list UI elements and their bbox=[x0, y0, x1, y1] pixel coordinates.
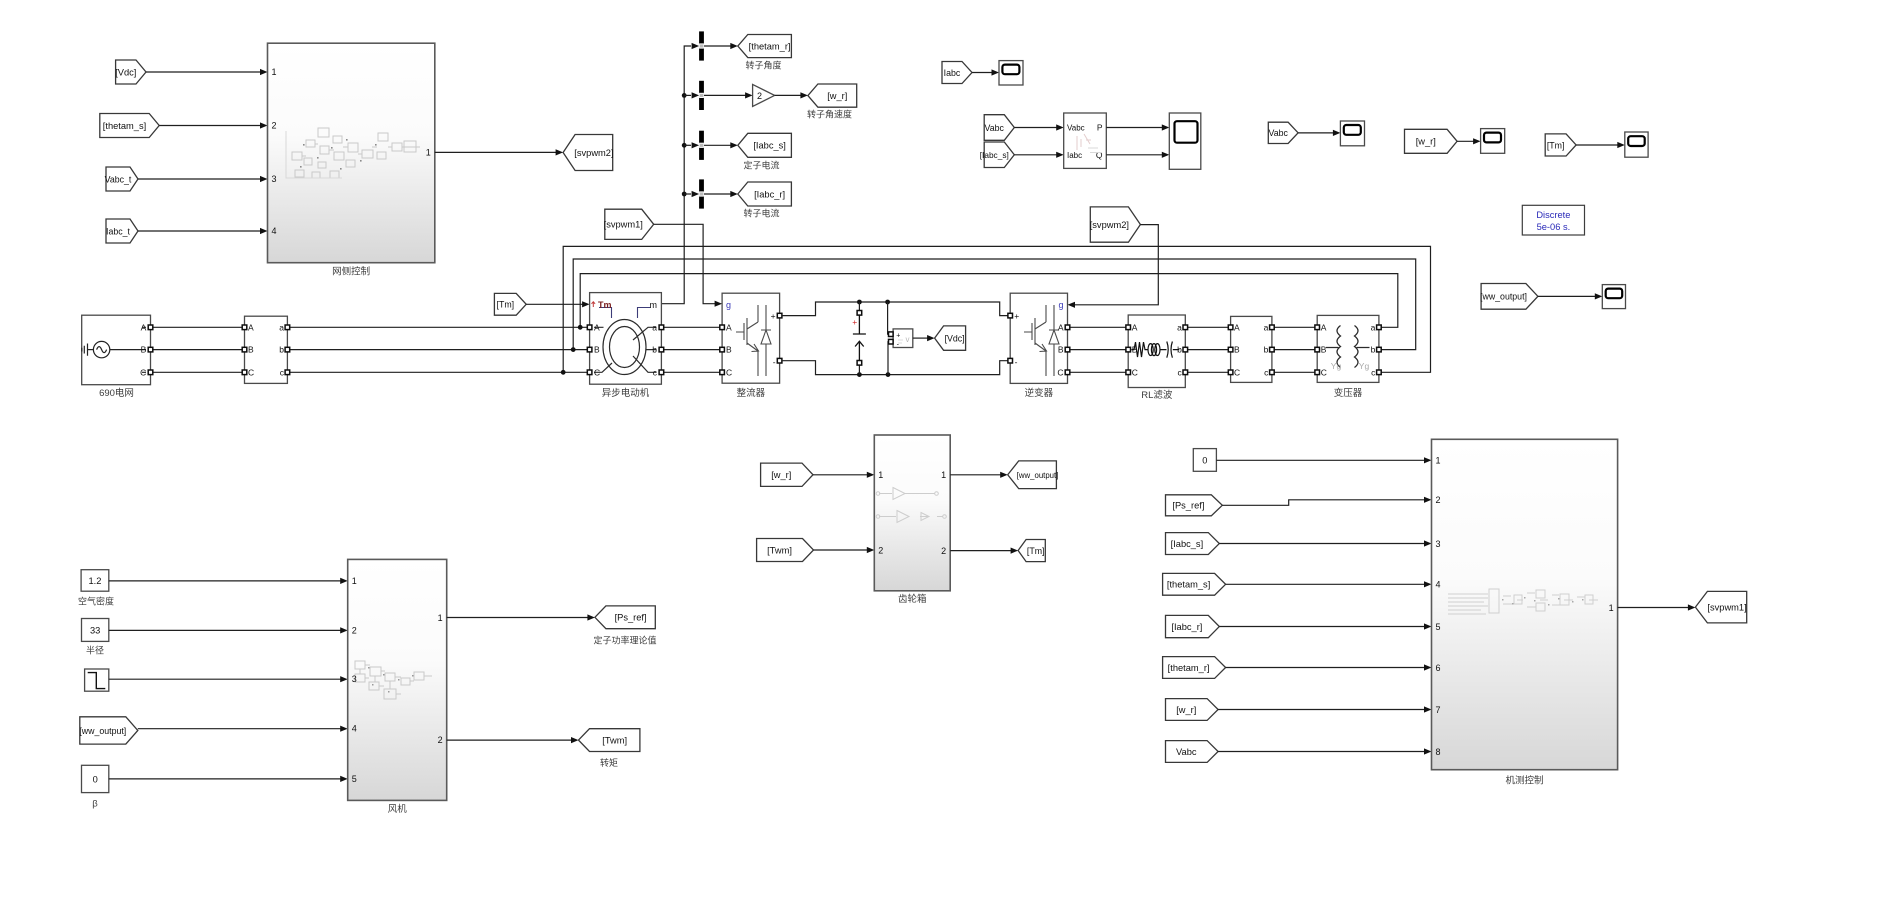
scope for ww_output bbox=[1602, 285, 1625, 309]
block 690电网 (690V grid source) bbox=[82, 315, 151, 385]
wire gearbox 2 to [Tm] bbox=[950, 550, 1011, 552]
svg-text:3: 3 bbox=[272, 174, 277, 184]
port square rectifier plus bbox=[777, 313, 782, 318]
svg-text:2: 2 bbox=[352, 625, 357, 635]
port square machine c bbox=[659, 370, 664, 375]
svg-text:定子电流: 定子电流 bbox=[743, 160, 779, 171]
from tag [Iabc_s] (control) bbox=[1166, 533, 1220, 555]
port square machine b bbox=[659, 347, 664, 352]
wire [w_r] to scope bbox=[1457, 140, 1474, 142]
wire P to scope bbox=[1106, 127, 1162, 129]
svg-text:[ww_output]: [ww_output] bbox=[79, 726, 126, 736]
goto tag [ww_output] (gearbox) bbox=[1008, 461, 1059, 489]
wire [w_r] to control 7 bbox=[1218, 709, 1425, 711]
svg-text:5: 5 bbox=[352, 774, 357, 784]
wire [w_r] to gearbox 1 bbox=[813, 474, 868, 476]
port square inverter plus bbox=[1008, 313, 1013, 318]
svg-text:风机: 风机 bbox=[388, 803, 408, 815]
wire cap top stub bbox=[858, 302, 860, 311]
wire machine c to rectifier C bbox=[664, 371, 720, 373]
svg-text:a: a bbox=[652, 322, 657, 332]
svg-text:β: β bbox=[92, 799, 98, 810]
wire branch to RT3 bbox=[684, 144, 691, 146]
svg-text:A: A bbox=[248, 322, 254, 332]
wire 33 to turbine 2 bbox=[109, 629, 341, 631]
svg-text:2: 2 bbox=[878, 545, 883, 555]
wire [Iabc_s] to power meter bbox=[1014, 154, 1057, 156]
svg-text:[Iabc_s]: [Iabc_s] bbox=[753, 141, 786, 151]
svg-text:Tm: Tm bbox=[598, 300, 612, 310]
svg-text:C: C bbox=[1132, 367, 1138, 377]
wire rectifier - to DC bottom rail bbox=[782, 361, 1008, 375]
constant 1.2 air density bbox=[81, 570, 109, 592]
wire [Iabc_s] to control 3 bbox=[1219, 543, 1425, 545]
svg-text:a: a bbox=[1371, 322, 1376, 332]
port square rectifier minus bbox=[777, 358, 782, 363]
wire Vabc to control 8 bbox=[1218, 751, 1425, 753]
gain 2 bbox=[753, 84, 775, 106]
svg-text:[thetam_r]: [thetam_r] bbox=[1168, 663, 1210, 673]
from tag [w_r] (gearbox) bbox=[761, 463, 813, 486]
constant 0 (Qs ref) bbox=[1193, 449, 1216, 472]
svg-text:2: 2 bbox=[272, 121, 277, 131]
svg-text:3: 3 bbox=[352, 674, 357, 684]
port square measure2 A bbox=[1228, 325, 1233, 330]
wire grid A to measure1 A bbox=[153, 326, 242, 328]
junction dot voltmeter top bbox=[885, 300, 890, 305]
svg-text:C: C bbox=[1234, 367, 1240, 377]
svg-text:A: A bbox=[726, 322, 732, 332]
goto tag [Tm] (gearbox) bbox=[1018, 540, 1045, 562]
svg-text:c: c bbox=[1178, 367, 1183, 377]
port square transformer c bbox=[1377, 370, 1382, 375]
from tag [ww_output] (scope) bbox=[1480, 284, 1538, 310]
svg-text:m: m bbox=[650, 300, 658, 310]
block 整流器 (rectifier) bbox=[722, 293, 780, 383]
wire measure1 c to machine C bbox=[290, 371, 588, 373]
svg-text:[Twm]: [Twm] bbox=[602, 735, 627, 745]
from tag [Iabc_r] (control) bbox=[1166, 615, 1220, 637]
svg-text:B: B bbox=[726, 345, 732, 355]
from tag [Tm] (machine torque) bbox=[494, 293, 526, 315]
svg-text:RL滤波: RL滤波 bbox=[1141, 389, 1173, 401]
port square RL-filter B bbox=[1126, 347, 1131, 352]
svg-text:[Tm]: [Tm] bbox=[1547, 140, 1565, 150]
wire branch to RT2 bbox=[684, 94, 691, 96]
svg-text:机测控制: 机测控制 bbox=[1505, 775, 1543, 787]
port square machine C bbox=[587, 370, 592, 375]
goto tag [Ps_ref] (turbine) bbox=[595, 606, 655, 629]
port square RL-filter c bbox=[1183, 370, 1188, 375]
from tag [Vdc] bbox=[115, 60, 146, 84]
wire [Twm] to gearbox 2 bbox=[814, 549, 868, 551]
port square measure2 c bbox=[1270, 370, 1275, 375]
wire measure2 a to transformer A bbox=[1274, 326, 1315, 328]
wire RT1 to [thetam_r] bbox=[704, 45, 731, 47]
port square measure1 a bbox=[285, 325, 290, 330]
svg-text:+: + bbox=[896, 333, 900, 340]
from tag [w_r] (scope) bbox=[1405, 129, 1458, 153]
goto tag [thetam_r] bbox=[738, 35, 792, 58]
wire rectifier + to DC top rail bbox=[782, 302, 1008, 316]
svg-text:空气密度: 空气密度 bbox=[78, 596, 114, 607]
svg-text:0: 0 bbox=[1202, 455, 1207, 465]
subsystem 齿轮箱 (gearbox) bbox=[874, 435, 950, 591]
svg-text:[w_r]: [w_r] bbox=[827, 91, 847, 101]
svg-text:[Vdc]: [Vdc] bbox=[945, 333, 965, 343]
from tag [thetam_s] (control) bbox=[1163, 573, 1226, 595]
wire [Ps_ref] to control 2 bbox=[1222, 500, 1425, 506]
svg-text:2: 2 bbox=[757, 91, 762, 101]
wire cap bottom stub bbox=[858, 365, 860, 375]
wire step to turbine 3 bbox=[109, 678, 341, 680]
capacitor C DC-link bbox=[853, 315, 866, 361]
wire [svpwm2] to inverter g bbox=[1074, 225, 1158, 305]
svg-text:B: B bbox=[248, 345, 254, 355]
port square measure1 c bbox=[285, 370, 290, 375]
from tag [Tm] (scope) bbox=[1545, 134, 1576, 156]
svg-text:[w_r]: [w_r] bbox=[1416, 137, 1436, 147]
port square RL-filter a bbox=[1183, 325, 1188, 330]
svg-text:[thetam_s]: [thetam_s] bbox=[103, 121, 146, 131]
svg-text:c: c bbox=[1264, 367, 1269, 377]
junction dot m-bus row2 bbox=[682, 93, 687, 98]
junction dot cap bottom bbox=[857, 372, 862, 377]
svg-text:g: g bbox=[1058, 300, 1063, 310]
svg-text:Vabc_t: Vabc_t bbox=[105, 174, 132, 184]
wire Vabc to scope bbox=[1298, 132, 1334, 134]
port square rectifier A bbox=[720, 325, 725, 330]
port square measure1 A bbox=[242, 325, 247, 330]
wire grid C to measure1 C bbox=[153, 371, 242, 373]
port square machine A bbox=[587, 325, 592, 330]
svg-text:a: a bbox=[279, 322, 284, 332]
svg-text:1: 1 bbox=[426, 147, 431, 157]
svg-text:c: c bbox=[1371, 367, 1376, 377]
rate transition RT2 bbox=[699, 81, 704, 110]
svg-text:[w_r]: [w_r] bbox=[771, 470, 791, 480]
svg-text:+: + bbox=[852, 317, 857, 327]
svg-text:逆变器: 逆变器 bbox=[1025, 387, 1054, 399]
svg-text:[Vdc]: [Vdc] bbox=[115, 67, 136, 77]
svg-text:Vabc: Vabc bbox=[1067, 124, 1085, 133]
port square grid B bbox=[148, 347, 153, 352]
wire RL-filter b to measure2 B bbox=[1188, 349, 1229, 351]
svg-text:8: 8 bbox=[1436, 747, 1441, 757]
wire turbine 1 to [Ps_ref] bbox=[447, 617, 589, 619]
junction dot feedback B bbox=[571, 347, 576, 352]
svg-text:C: C bbox=[726, 367, 732, 377]
svg-text:定子功率理论值: 定子功率理论值 bbox=[593, 635, 656, 646]
svg-text:-: - bbox=[1015, 357, 1018, 367]
port square inverter C bbox=[1065, 370, 1070, 375]
port square machine a bbox=[659, 325, 664, 330]
wire RL-filter c to measure2 C bbox=[1188, 371, 1229, 373]
feedback wire transformer b to grid bus B bbox=[573, 259, 1415, 350]
svg-text:-: - bbox=[773, 357, 776, 367]
port square measure1 B bbox=[242, 347, 247, 352]
wire [thetam_s] to port 2 bbox=[159, 125, 260, 127]
svg-text:C: C bbox=[248, 367, 254, 377]
wire measure2 c to transformer C bbox=[1274, 371, 1315, 373]
wire gearbox 1 to [ww_output] bbox=[950, 474, 1001, 476]
svg-text:A: A bbox=[1234, 322, 1240, 332]
goto tag [Vdc] bbox=[935, 326, 966, 350]
svg-text:6: 6 bbox=[1436, 663, 1441, 673]
block three-phase measurement 1 bbox=[245, 316, 288, 383]
wire Q to scope bbox=[1106, 154, 1162, 156]
svg-text:[svpwm2]: [svpwm2] bbox=[574, 148, 613, 158]
wire RT4 to [Iabc_r] bbox=[704, 193, 731, 195]
svg-text:[Ps_ref]: [Ps_ref] bbox=[1172, 501, 1204, 511]
port square transformer a bbox=[1377, 325, 1382, 330]
port square measure2 C bbox=[1228, 370, 1233, 375]
subsystem 机侧控制 (machine-side control) bbox=[1432, 439, 1618, 769]
wire grid-side-control out to [svpwm2] bbox=[435, 151, 556, 153]
svg-text:1: 1 bbox=[1436, 456, 1441, 466]
voltage measurement block Vdc bbox=[893, 329, 913, 349]
junction dot m-bus row3 bbox=[682, 143, 687, 148]
svg-text:b: b bbox=[1264, 345, 1269, 355]
wire Vabc to power meter bbox=[1014, 127, 1057, 129]
svg-text:整流器: 整流器 bbox=[737, 387, 766, 399]
wire RL-filter a to measure2 A bbox=[1188, 326, 1229, 328]
from tag Vabc (scope) bbox=[1268, 122, 1298, 143]
junction dot cap top bbox=[857, 300, 862, 305]
svg-text:1: 1 bbox=[438, 613, 443, 623]
rate transition RT3 bbox=[699, 131, 704, 160]
svg-text:g: g bbox=[726, 300, 731, 310]
svg-text:1: 1 bbox=[941, 470, 946, 480]
from tag [svpwm1] (rectifier gate) bbox=[604, 209, 654, 239]
constant 0 beta bbox=[82, 765, 109, 792]
svg-text:+: + bbox=[1014, 311, 1019, 321]
port square inverter B bbox=[1065, 347, 1070, 352]
wire gain to [w_r] bbox=[775, 94, 801, 96]
from tag [Twm] (gearbox) bbox=[757, 539, 814, 562]
wire machine b to rectifier B bbox=[664, 349, 720, 351]
wire [ww_output] to turbine 4 bbox=[138, 728, 341, 730]
goto tag [w_r] bbox=[808, 84, 857, 107]
svg-text:半径: 半径 bbox=[86, 645, 104, 656]
svg-text:B: B bbox=[141, 345, 147, 355]
from tag [thetam_s] bbox=[100, 114, 159, 138]
feedback wire transformer a to grid bus A bbox=[580, 274, 1398, 328]
from tag Vabc (control) bbox=[1166, 741, 1219, 763]
junction dot voltmeter bottom bbox=[886, 372, 891, 377]
svg-text:[thetam_s]: [thetam_s] bbox=[1167, 580, 1210, 590]
svg-text:[Tm]: [Tm] bbox=[1027, 546, 1045, 556]
wire 0 to turbine 5 bbox=[109, 778, 341, 780]
junction dot feedback C bbox=[561, 370, 566, 375]
port square grid C bbox=[148, 370, 153, 375]
wire inverter C to RL-filter C bbox=[1070, 371, 1126, 373]
wire grid B to measure1 B bbox=[153, 349, 242, 351]
svg-text:[Ps_ref]: [Ps_ref] bbox=[615, 613, 647, 623]
wire branch to RT4 bbox=[684, 193, 691, 195]
svg-text:C: C bbox=[594, 367, 600, 377]
port square rectifier B bbox=[720, 347, 725, 352]
goto tag [Iabc_s] bbox=[738, 133, 792, 157]
from tag Vabc_t bbox=[105, 167, 138, 191]
port square measure2 B bbox=[1228, 347, 1233, 352]
wire [Tm] to scope bbox=[1576, 144, 1618, 146]
port square transformer b bbox=[1377, 347, 1382, 352]
goto tag [svpwm1] (control) bbox=[1695, 591, 1746, 623]
svg-text:7: 7 bbox=[1436, 705, 1441, 715]
svg-text:B: B bbox=[1234, 345, 1240, 355]
power measurement block P Q bbox=[1064, 113, 1107, 168]
wire voltmeter - tap bbox=[888, 342, 891, 375]
svg-text:[ww_output]: [ww_output] bbox=[1480, 292, 1527, 302]
wire measure1 b to machine B bbox=[290, 349, 588, 351]
port square transformer A bbox=[1315, 325, 1320, 330]
wire inverter A to RL-filter A bbox=[1070, 326, 1126, 328]
scope for P Q bbox=[1169, 113, 1201, 169]
from tag [w_r] (control) bbox=[1166, 699, 1219, 721]
rate transition RT4 bbox=[699, 179, 704, 208]
wire machine a to rectifier A bbox=[664, 326, 720, 328]
subsystem 网侧控制 (grid-side control) bbox=[268, 43, 435, 263]
svg-text:[ww_output]: [ww_output] bbox=[1017, 471, 1059, 480]
from tag [ww_output] (turbine) bbox=[79, 717, 137, 744]
svg-text:[svpwm1]: [svpwm1] bbox=[1707, 602, 1746, 612]
svg-text:Iabc: Iabc bbox=[1067, 151, 1082, 160]
svg-text:[Twm]: [Twm] bbox=[767, 545, 792, 555]
port square RL-filter A bbox=[1126, 325, 1131, 330]
svg-text:Yg: Yg bbox=[1359, 361, 1370, 371]
svg-text:2: 2 bbox=[438, 735, 443, 745]
junction dot m-bus row4 bbox=[682, 192, 687, 197]
wire [ww_output] to scope bbox=[1538, 295, 1596, 297]
rate transition RT1 bbox=[699, 31, 704, 60]
wire measure1 a to machine A bbox=[290, 326, 588, 328]
svg-text:Iabc_t: Iabc_t bbox=[106, 226, 131, 236]
svg-text:[svpwm1]: [svpwm1] bbox=[604, 220, 643, 230]
svg-text:Discrete: Discrete bbox=[1536, 210, 1570, 220]
svg-text:v: v bbox=[906, 335, 910, 344]
svg-text:[svpwm2]: [svpwm2] bbox=[1090, 220, 1129, 230]
scope for w_r bbox=[1481, 129, 1505, 154]
svg-text:1: 1 bbox=[352, 576, 357, 586]
wire turbine 2 to [Twm] bbox=[447, 739, 572, 741]
svg-text:转矩: 转矩 bbox=[600, 757, 618, 768]
svg-text:Vabc: Vabc bbox=[1268, 128, 1288, 138]
svg-text:齿轮箱: 齿轮箱 bbox=[898, 593, 927, 605]
svg-text:1: 1 bbox=[1609, 603, 1614, 613]
wire [thetam_r] to control 6 bbox=[1226, 667, 1425, 669]
from tag Iabc bbox=[942, 62, 972, 84]
svg-text:A: A bbox=[1058, 322, 1064, 332]
goto tag [svpwm2] bbox=[563, 135, 613, 171]
constant 33 radius bbox=[82, 619, 109, 642]
svg-text:异步电动机: 异步电动机 bbox=[602, 387, 650, 399]
svg-text:A: A bbox=[594, 322, 600, 332]
block three-phase measurement 2 bbox=[1231, 316, 1272, 382]
port square cap top bbox=[857, 311, 862, 316]
wire Vabc_t to port 3 bbox=[138, 178, 260, 180]
wire [Vdc] to grid-side-control port 1 bbox=[146, 71, 260, 73]
svg-text:Q: Q bbox=[1096, 150, 1103, 160]
svg-text:转子角速度: 转子角速度 bbox=[807, 109, 852, 120]
svg-text:4: 4 bbox=[352, 724, 357, 734]
scope for Tm bbox=[1625, 132, 1648, 157]
port square RL-filter b bbox=[1183, 347, 1188, 352]
port square cap bottom bbox=[857, 361, 862, 366]
from tag [Ps_ref] (control) bbox=[1166, 495, 1223, 516]
svg-text:690电网: 690电网 bbox=[99, 387, 134, 399]
svg-text:5: 5 bbox=[1436, 622, 1441, 632]
from tag Iabc_t bbox=[106, 219, 138, 243]
svg-text:Vabc: Vabc bbox=[1176, 747, 1197, 757]
subsystem 风机 (wind turbine) bbox=[348, 559, 447, 800]
wire machine m output up to rate transitions bbox=[661, 46, 691, 304]
from tag [thetam_r] (control) bbox=[1163, 657, 1226, 679]
wire voltmeter v to [Vdc] bbox=[913, 337, 928, 339]
goto tag [Iabc_r] bbox=[738, 182, 792, 206]
svg-text:转子角度: 转子角度 bbox=[745, 60, 781, 71]
port square inverter minus bbox=[1008, 358, 1013, 363]
port square transformer C bbox=[1315, 370, 1320, 375]
port square RL-filter C bbox=[1126, 370, 1131, 375]
block 异步电动机 (induction machine) bbox=[590, 293, 662, 385]
port square measure1 b bbox=[285, 347, 290, 352]
svg-text:a: a bbox=[1264, 322, 1269, 332]
svg-text:33: 33 bbox=[90, 625, 100, 635]
svg-text:转子电流: 转子电流 bbox=[743, 208, 779, 219]
wire inverter B to RL-filter B bbox=[1070, 349, 1126, 351]
svg-text:4: 4 bbox=[1436, 580, 1441, 590]
wire control out to [svpwm1] bbox=[1618, 607, 1689, 609]
wire 1.2 to turbine 1 bbox=[109, 580, 341, 582]
svg-text:Yg: Yg bbox=[1331, 361, 1342, 371]
wire [Tm] to machine Tm port bbox=[526, 303, 583, 305]
wire [svpwm1] to rectifier g bbox=[654, 224, 716, 303]
svg-text:a: a bbox=[1177, 322, 1182, 332]
goto tag [Twm] (turbine) bbox=[579, 729, 640, 752]
port square voltmeter - bbox=[889, 339, 894, 344]
svg-text:A: A bbox=[141, 322, 147, 332]
block RL滤波 (RL filter) bbox=[1128, 315, 1185, 388]
svg-text:B: B bbox=[1321, 345, 1327, 355]
svg-text:b: b bbox=[279, 345, 284, 355]
port square voltmeter + bbox=[889, 332, 894, 337]
svg-text:[thetam_r]: [thetam_r] bbox=[749, 41, 791, 51]
svg-text:[w_r]: [w_r] bbox=[1176, 705, 1196, 715]
svg-text:[Iabc_s]: [Iabc_s] bbox=[980, 150, 1009, 160]
wire Iabc to scope bbox=[972, 72, 992, 74]
wire [thetam_s] to control 4 bbox=[1226, 583, 1425, 585]
scope for Vabc bbox=[1340, 121, 1364, 146]
port square transformer B bbox=[1315, 347, 1320, 352]
svg-text:4: 4 bbox=[272, 226, 277, 236]
wire Iabc_t to port 4 bbox=[138, 230, 260, 232]
wire measure2 b to transformer B bbox=[1274, 349, 1315, 351]
port square measure2 b bbox=[1270, 347, 1275, 352]
svg-text:Vabc: Vabc bbox=[985, 123, 1005, 133]
svg-text:网侧控制: 网侧控制 bbox=[332, 266, 370, 278]
block 逆变器 (inverter) bbox=[1010, 293, 1067, 383]
svg-text:变压器: 变压器 bbox=[1334, 387, 1363, 399]
svg-text:C: C bbox=[1321, 367, 1327, 377]
svg-text:+: + bbox=[771, 311, 776, 321]
svg-text:[Iabc_r]: [Iabc_r] bbox=[1171, 622, 1202, 632]
from tag [Iabc_s] (power meter) bbox=[980, 142, 1015, 168]
port square machine B bbox=[587, 347, 592, 352]
feedback wire transformer c to grid bus C bbox=[563, 246, 1430, 372]
svg-text:Iabc: Iabc bbox=[944, 68, 961, 78]
port square grid A bbox=[148, 325, 153, 330]
